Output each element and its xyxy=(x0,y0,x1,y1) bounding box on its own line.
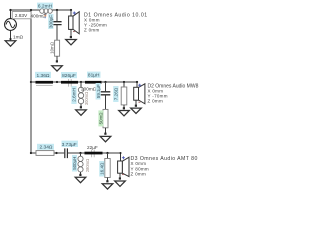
node C (woofer shunt node) xyxy=(56,9,58,11)
node H (mid shunt cap node) xyxy=(104,81,106,83)
wire: R2 to ground xyxy=(56,56,58,60)
driver D2 Omnes Audio MW8 (speaker symbol) xyxy=(134,84,145,104)
value box 2.83V xyxy=(12,12,31,20)
svg-text:X 0mm: X 0mm xyxy=(131,161,147,166)
wire: top horizontal net from source to woofer xyxy=(11,10,72,40)
svg-text:1mΩ: 1mΩ xyxy=(13,34,24,39)
value label 2.6mH (rotated) xyxy=(71,86,76,104)
node E (bus to mid) xyxy=(30,81,32,83)
svg-text:Z 0mm: Z 0mm xyxy=(131,172,147,177)
wire: main vertical bus on left xyxy=(30,10,32,153)
node A (source to bus) xyxy=(9,9,11,11)
svg-text:22µF: 22µF xyxy=(87,145,98,150)
wire: C1 to R2 xyxy=(56,25,58,41)
svg-text:6.2mH: 6.2mH xyxy=(38,3,53,9)
node J (mid driver corner) xyxy=(136,81,138,83)
node F xyxy=(56,81,58,83)
svg-text:10mΩ: 10mΩ xyxy=(49,41,54,54)
value label 1.36Ω xyxy=(35,72,51,78)
inductor L5 500µH (tweeter shunt, coil loops) xyxy=(78,156,83,172)
wire: node G down to L4 xyxy=(80,82,82,88)
wire row2 segments xyxy=(31,81,137,83)
ground (D2) xyxy=(131,108,142,113)
svg-text:300µF: 300µF xyxy=(49,15,54,28)
svg-text:2.6mH: 2.6mH xyxy=(72,88,77,102)
node B (bus top) xyxy=(30,9,32,11)
stray colored mark xyxy=(44,14,46,15)
svg-text:2.34Ω: 2.34Ω xyxy=(40,145,53,151)
svg-text:280mΩ: 280mΩ xyxy=(85,159,90,172)
svg-text:2.83V: 2.83V xyxy=(15,13,28,19)
node K (bus bottom corner) xyxy=(30,152,32,154)
wire: node N down xyxy=(107,153,109,159)
ground (R4) xyxy=(119,111,130,116)
value label 59.1µF (rotated) xyxy=(96,83,101,100)
label 50mΩ (green, rotated) xyxy=(98,110,103,126)
inductor L1 6.2mH (woofer lowpass, coil loops) xyxy=(40,9,53,14)
inductor L2 1.36Ω bar element xyxy=(36,81,54,84)
svg-text:3.73µF: 3.73µF xyxy=(62,142,77,148)
svg-text:826µF: 826µF xyxy=(62,73,76,79)
node O (D3 corner) xyxy=(119,152,121,154)
wire: down to D2 xyxy=(136,82,138,87)
svg-text:300mΩ: 300mΩ xyxy=(84,92,89,105)
svg-text:59.1µF: 59.1µF xyxy=(96,84,101,98)
resistor R5 2.34Ω (tweeter series) xyxy=(36,151,54,156)
node D (woofer + terminal corner) xyxy=(70,9,72,11)
svg-text:Y 80mm: Y 80mm xyxy=(131,166,149,171)
svg-text:1.36Ω: 1.36Ω xyxy=(37,73,50,79)
capacitor C4 3.73µF (tweeter series) xyxy=(65,148,68,158)
capacitor C2 826µF (selected bar with plates) xyxy=(69,79,72,87)
svg-text:Z 0mm: Z 0mm xyxy=(84,28,100,33)
wire: R3 to ground xyxy=(105,128,107,133)
resistor R3 50mΩ (C3 ESR) xyxy=(103,109,108,127)
wire: node C down to C1 xyxy=(56,10,58,21)
resistor R6 16.4Ω (tweeter shunt) xyxy=(105,159,110,178)
ground (woofer shunt) xyxy=(52,66,63,71)
driver D3 Omnes Audio AMT 80 (speaker symbol) xyxy=(118,156,129,176)
ground (L4) xyxy=(76,110,87,115)
wire: down to D1 xyxy=(70,10,72,16)
capacitor C1 300µF (woofer shunt) xyxy=(53,22,62,25)
node I (mid damping resistor node) xyxy=(123,81,125,83)
ground (D3) xyxy=(115,181,126,186)
value label 2.34Ω xyxy=(37,144,54,150)
wire: L5 to ground xyxy=(80,172,82,174)
value label 81µH xyxy=(87,72,101,78)
value label 6.2mH xyxy=(37,3,53,9)
svg-text:16.4Ω: 16.4Ω xyxy=(100,162,105,175)
wire: node M down xyxy=(80,153,82,156)
inductor L4 2.6mH (mid shunt, coil loops) xyxy=(78,87,83,104)
wire: L4 to ground xyxy=(80,104,82,107)
svg-text:7.26Ω: 7.26Ω xyxy=(114,87,119,100)
text block D3 xyxy=(131,156,198,177)
inductor L3 81µH bar element xyxy=(85,81,102,84)
svg-text:50mΩ: 50mΩ xyxy=(99,112,104,125)
driver D1 Omnes Audio 10.01 (speaker symbol) xyxy=(69,12,80,34)
wire: R6 to ground xyxy=(107,178,109,182)
wire: R4 to ground xyxy=(123,105,125,108)
value label 500µH (rotated) xyxy=(72,155,77,172)
value label 826µF xyxy=(61,72,77,78)
wire: D1 to ground xyxy=(70,29,72,36)
value label 7.26Ω (rotated) xyxy=(113,86,118,102)
AC source V1 xyxy=(5,19,17,31)
wire: C3 to R3 xyxy=(105,95,107,110)
wire: D3 to ground xyxy=(119,173,121,178)
wire: node I down xyxy=(123,82,125,87)
capacitor C5 22µF (selected bar with plates) xyxy=(92,150,95,158)
svg-text:81µH: 81µH xyxy=(88,73,100,79)
wire: node H down xyxy=(105,82,107,91)
text block D1 xyxy=(84,12,148,32)
wire row3 segments xyxy=(31,153,121,161)
ground (D1) xyxy=(66,40,77,45)
capacitor C3 59.1µF (mid shunt) xyxy=(101,92,111,95)
ground (R6) xyxy=(102,184,113,189)
svg-text:500µH: 500µH xyxy=(72,157,77,170)
resistor R4 7.26Ω (mid shunt) xyxy=(121,87,127,105)
value label 16.4Ω (rotated) xyxy=(99,161,104,177)
resistor R2 10mΩ (C1 ESR) xyxy=(55,40,60,56)
ground (L5) xyxy=(75,177,86,182)
node: source bottom junction xyxy=(9,38,11,40)
value label 300µF (rotated) xyxy=(48,14,53,29)
ground (source) xyxy=(5,41,16,46)
node L xyxy=(55,152,57,154)
node G (mid shunt coil node) xyxy=(80,81,82,83)
svg-text:Z 0mm: Z 0mm xyxy=(148,98,164,103)
text block D2 xyxy=(148,83,199,103)
wire: D2 to ground xyxy=(135,100,137,105)
node M (tweeter shunt coil node) xyxy=(79,152,81,154)
ground (R3) xyxy=(100,136,111,141)
node N (tweeter Lpad node) xyxy=(106,152,108,154)
svg-text:400mΩ: 400mΩ xyxy=(31,14,47,19)
value label 3.73µF xyxy=(62,141,79,147)
